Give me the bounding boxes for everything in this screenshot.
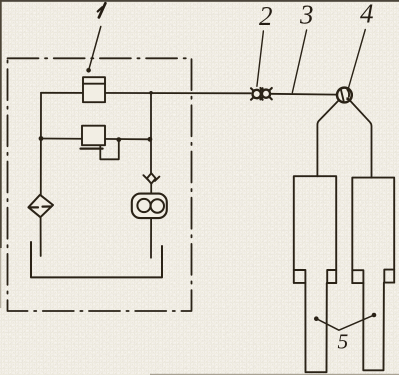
svg-text:4: 4 xyxy=(360,0,374,29)
pump P1 (gear pump, two circles) xyxy=(132,194,167,219)
leader line for label 1 (with arrow dot) xyxy=(86,27,101,73)
node B junction dot (pilot tap) xyxy=(116,137,121,142)
flow direction indicator (diamond arrow) xyxy=(143,173,159,183)
wire: right branch from swivel to right cylinder xyxy=(350,101,371,178)
wire: pump outlet into tank xyxy=(150,218,152,258)
node D corner dot (supply line / right rail) xyxy=(149,91,153,95)
cylinder 5a gland notches xyxy=(294,270,336,283)
wire: right rail from supply line down to pump xyxy=(150,93,152,174)
wire: middle branch line xyxy=(41,138,151,141)
wire: flow indicator to pump inlet xyxy=(150,184,152,194)
wire: line 3 from coupling to swivel 4 xyxy=(270,93,337,96)
label 1 (hand-drawn stroke) xyxy=(98,3,106,17)
wire: left branch from swivel to left cylinder xyxy=(317,101,338,177)
svg-text:2: 2 xyxy=(259,1,273,31)
cylinder 5b ram rod xyxy=(363,283,384,371)
wire: supply line from left rail to coupling xyxy=(41,92,251,95)
scan edge left xyxy=(0,0,2,248)
cylinder 5a (left) body xyxy=(294,176,336,372)
tank / reservoir xyxy=(31,242,162,277)
leader line for label 2 xyxy=(257,31,264,86)
swivel joint 4 (circle with internal detail) xyxy=(337,88,352,103)
node C junction dot (right rail / middle branch) xyxy=(148,137,153,142)
cylinder 5a ram rod xyxy=(305,283,326,372)
node A junction dot (left rail / middle branch) xyxy=(39,136,44,141)
wire: filter outlet into tank xyxy=(40,217,42,256)
svg-text:3: 3 xyxy=(299,0,314,30)
cylinder 5b (right) body xyxy=(352,178,394,371)
leader lines for label 5 (with dots on both rods) xyxy=(314,313,376,331)
cylinder 5b gland notches xyxy=(352,270,394,284)
valve 1 (component 1, square body) xyxy=(83,77,105,102)
scan edge bottom-right xyxy=(150,374,399,375)
leader line for label 3 xyxy=(292,30,306,93)
coupling 2 (quick-disconnect, two crossed circles) xyxy=(251,88,272,100)
svg-text:5: 5 xyxy=(338,330,349,354)
valve 2 (pilot-operated square body) xyxy=(81,126,106,149)
wire: left rail down to filter xyxy=(40,93,42,195)
leader line for label 4 xyxy=(349,30,366,88)
scan edge top xyxy=(0,0,399,2)
enclosure dash-dot boundary xyxy=(8,58,192,311)
filter F1 (diamond) xyxy=(28,195,53,217)
wire: pilot loop from node B to valve bottom xyxy=(100,140,119,160)
